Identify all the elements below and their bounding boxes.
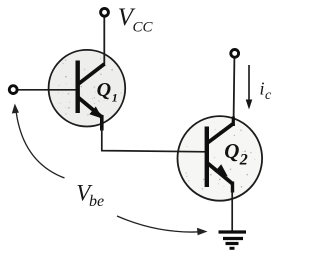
svg-text:be: be (89, 193, 104, 210)
wire: Q1 emitter down and right to Q2 base (102, 128, 207, 152)
node: VCC terminal (101, 8, 109, 16)
svg-text:CC: CC (133, 20, 154, 36)
svg-text:i: i (260, 79, 265, 99)
transistor Q2 collector vertical stub (232, 117, 235, 127)
transistor Q2 body circle (178, 116, 263, 201)
transistor Q1 emitter stroke (78, 98, 102, 118)
current arrow i_c (248, 65, 250, 101)
wire: top-right terminal down to Q2 collector (233, 58, 236, 119)
svg-text:c: c (265, 88, 272, 103)
transistor Q1 emitter arrowhead (89, 107, 102, 119)
node: input terminal (left) (9, 86, 17, 94)
svg-text:1: 1 (112, 91, 118, 105)
wire: VCC terminal down to Q1 collector (103, 17, 105, 66)
transistor Q2 emitter arrowhead (215, 164, 228, 176)
ground (219, 232, 247, 248)
transistor Q2 emitter vertical stub (231, 182, 234, 193)
annotation arrow: Vbe region to ground (curved, arrowhead right) (117, 216, 201, 232)
transistor Q2 collector stroke (208, 124, 233, 143)
transistor Q1 emitter vertical stub (100, 115, 104, 131)
svg-text:Q: Q (224, 139, 239, 163)
annotation arrow: Vbe to input terminal (curved, arrowhead up) (16, 109, 65, 178)
transistor Q1 base bar (75, 61, 79, 114)
transistor Q2 base bar (205, 127, 209, 188)
transistor Q2 emitter stroke (208, 164, 233, 185)
svg-text:Q: Q (97, 79, 111, 101)
node: collector terminal (top right) (231, 50, 239, 58)
wire: Q2 emitter down to ground (231, 190, 233, 231)
transistor Q1 collector stroke (78, 64, 104, 84)
transistor Q1 body circle (49, 50, 126, 127)
wire: left terminal to Q1 base (18, 89, 76, 91)
svg-text:2: 2 (239, 152, 248, 169)
